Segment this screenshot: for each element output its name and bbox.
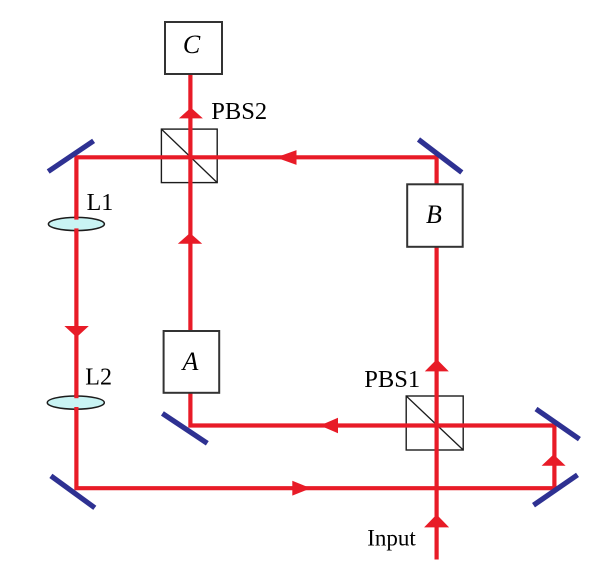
box B bbox=[407, 184, 463, 247]
arrow up above PBS2 bbox=[179, 108, 203, 119]
wire: vertical beam from A through PBS2 to C bbox=[188, 74, 192, 331]
arrow right on bottom beam bbox=[292, 481, 311, 496]
wire: beam crossing lens L1 edges bbox=[74, 215, 78, 219]
lens L2 bbox=[47, 396, 104, 409]
svg-text:L1: L1 bbox=[87, 190, 114, 216]
mirror top-left bbox=[48, 141, 93, 172]
mirror right middle bbox=[536, 409, 579, 439]
mirror bottom-left bbox=[51, 476, 95, 508]
mirror top-right bbox=[419, 140, 462, 173]
svg-text:A: A bbox=[181, 347, 199, 376]
wire: beam crossing lens L2 edges bbox=[74, 394, 78, 398]
box A bbox=[164, 331, 220, 393]
wire: vertical beam from B through PBS1 to input end bbox=[435, 247, 439, 560]
arrow down on left beam bbox=[64, 326, 88, 337]
lens L1 bbox=[48, 217, 104, 230]
wire: vertical beam from top-right corner to B bbox=[435, 155, 439, 184]
arrow up on right vertical segment bbox=[542, 454, 566, 465]
mirror right bottom bbox=[534, 475, 578, 505]
box C bbox=[165, 22, 222, 74]
arrow up above PBS1 bbox=[425, 359, 449, 371]
arrow left on top beam bbox=[276, 150, 297, 165]
svg-text:PBS2: PBS2 bbox=[211, 98, 267, 125]
mirror below box A bbox=[162, 413, 207, 443]
wire: main red beam loop (top horiz, left vert, bottom horiz, right vert, middle horiz, up to A) bbox=[76, 157, 554, 488]
svg-text:Input: Input bbox=[367, 525, 416, 550]
svg-text:L2: L2 bbox=[85, 364, 112, 390]
beam splitter cube PBS1 bbox=[406, 396, 463, 450]
arrow up on input beam bbox=[424, 515, 449, 528]
svg-text:PBS1: PBS1 bbox=[364, 366, 420, 393]
svg-text:B: B bbox=[426, 200, 442, 229]
arrow up between A and PBS2 bbox=[178, 233, 202, 244]
arrow left on middle beam bbox=[320, 418, 338, 434]
svg-text:C: C bbox=[183, 30, 201, 59]
beam splitter cube PBS2 bbox=[161, 129, 217, 183]
